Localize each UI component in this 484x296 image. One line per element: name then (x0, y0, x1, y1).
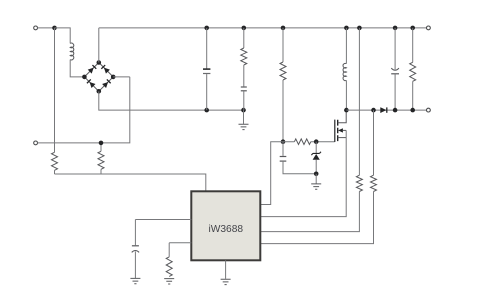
bridge AC node dot left (82, 75, 87, 80)
wire Q1 source to IC (260, 130, 346, 216)
wire bridge- return rail (99, 91, 244, 110)
ground zener (311, 184, 321, 189)
wire (100, 143, 102, 151)
wire (100, 169, 102, 174)
wire top rail (rectified bus) (99, 27, 427, 29)
node C junction (281, 139, 286, 144)
wire (412, 81, 414, 110)
wire (37, 27, 54, 29)
wire (283, 162, 316, 174)
junction output rail (371, 108, 376, 113)
node F junction (drain rail) (344, 108, 349, 113)
resistor R4 (280, 62, 286, 80)
capacitor C2 (241, 86, 247, 88)
transistor Q1 gate bar (334, 120, 336, 142)
bridge + node dot (97, 60, 102, 65)
terminal J4 (output -) (427, 108, 431, 112)
wire (206, 74, 208, 110)
wire (168, 243, 170, 257)
zener diode Z1 (313, 154, 320, 160)
terminal J3 (output +) (427, 26, 431, 30)
wire (394, 28, 396, 69)
transistor Q1 body arrow (338, 128, 343, 132)
resistor R6 (410, 62, 416, 81)
wire (134, 220, 136, 246)
terminal J1 (AC line input) (34, 26, 38, 30)
junction top rail R6 (410, 26, 415, 31)
wire (243, 65, 245, 86)
wire (70, 60, 82, 77)
wire (345, 80, 347, 110)
wire (55, 28, 71, 44)
bridge - node dot (97, 89, 102, 94)
resistor R8 (371, 175, 377, 191)
ground R9 (164, 279, 174, 284)
wire (412, 28, 414, 62)
wire to primary ground (243, 110, 245, 124)
wire R7 to IC (260, 192, 359, 232)
inductor L2 (343, 63, 346, 80)
wire node A down (54, 28, 56, 152)
bridge diode D2 (right-top) (104, 68, 110, 74)
resistor R9 (166, 257, 172, 276)
junction return rail end (241, 108, 246, 113)
node B junction (99, 141, 104, 146)
wire sense bus to IC VIN pin (55, 174, 206, 191)
node E junction (314, 172, 319, 177)
wire (243, 91, 245, 110)
capacitor C3 (280, 156, 287, 158)
terminal J2 (AC neutral input) (34, 141, 38, 145)
svg-text:iW3688: iW3688 (209, 224, 244, 235)
junction top rail R4 (281, 26, 286, 31)
bridge rectifier BR1 diamond (84, 63, 113, 92)
inductor L1 (70, 43, 74, 60)
wire Q1 source (338, 137, 347, 139)
wire (315, 142, 317, 154)
node A junction (52, 26, 57, 31)
wire IC pin RT (169, 242, 191, 244)
wire R8 to IC (260, 192, 373, 244)
capacitor C4 (output electrolytic) (391, 68, 399, 70)
wire (134, 251, 136, 278)
wire (315, 174, 317, 184)
junction output rail C4 (393, 108, 398, 113)
junction top rail C1 (204, 26, 209, 31)
wire (282, 80, 284, 142)
resistor R5 (gate) (294, 139, 310, 145)
wire (54, 170, 56, 174)
diode D5 (output) (380, 107, 386, 113)
junction top rail sense (357, 26, 362, 31)
wire output return rail (346, 109, 426, 111)
capacitor C5 (VCC) (132, 245, 139, 247)
capacitor C1 (203, 68, 210, 70)
wire IC pin VCC (135, 219, 191, 221)
junction output rail R6 (410, 108, 415, 113)
wire (282, 142, 284, 156)
wire (243, 28, 245, 48)
junction top rail C4 (393, 26, 398, 31)
bridge AC node dot right (111, 75, 116, 80)
wire IC GND pin (225, 260, 227, 279)
resistor R1 (52, 152, 58, 170)
node D junction (314, 139, 319, 144)
bridge diode D1 (left-top) (88, 68, 94, 74)
op-amp U1 controller iW3688 body (191, 191, 260, 260)
ground C5 (130, 278, 140, 283)
wire (345, 28, 347, 64)
transistor Q1 channel segments (337, 120, 339, 141)
junction on return rail (204, 108, 209, 113)
wire sense from output rail (373, 110, 375, 175)
wire AC2 to bridge (37, 77, 129, 143)
wire to gate (311, 141, 335, 143)
junction top rail L2 (344, 26, 349, 31)
resistor R3 (241, 48, 247, 65)
wire (315, 160, 317, 174)
wire IC gate-drive (260, 142, 294, 205)
wire (394, 74, 396, 110)
wire bridge right vertex (113, 76, 130, 78)
wire bridge+ to top rail (98, 28, 100, 63)
wire Q1 drain (338, 110, 347, 123)
wire sense from top rail (358, 28, 360, 175)
ground primary (239, 124, 249, 129)
resistor R2 (98, 151, 104, 169)
resistor R7 (356, 175, 362, 191)
bridge diode D3 (bottom-left) (89, 82, 95, 88)
bridge diode D4 (bottom-right) (102, 82, 108, 88)
wire (282, 28, 284, 62)
junction top rail R3 (242, 26, 247, 31)
wire (206, 28, 208, 69)
ground U1 (221, 279, 231, 284)
